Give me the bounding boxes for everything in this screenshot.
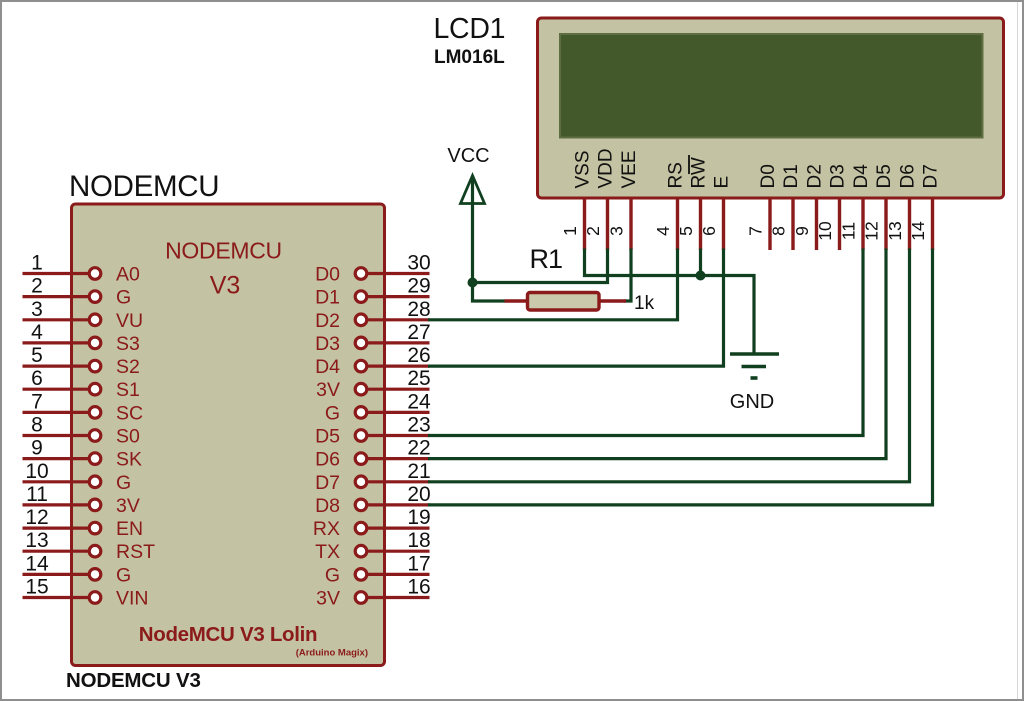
svg-text:8: 8 bbox=[769, 226, 789, 236]
svg-text:21: 21 bbox=[407, 460, 430, 483]
NodeMCU pin 4 (S3) left bbox=[23, 321, 140, 355]
NodeMCU pin 13 (RST) left bbox=[23, 529, 156, 563]
svg-text:25: 25 bbox=[407, 367, 430, 390]
svg-text:14: 14 bbox=[25, 552, 49, 575]
NodeMCU pin 14 (G) left bbox=[23, 552, 132, 586]
NodeMCU module body bbox=[72, 204, 385, 666]
svg-text:S0: S0 bbox=[116, 426, 140, 448]
svg-text:VCC: VCC bbox=[447, 145, 489, 167]
wire VEE (LCD pin3) down to R1 right lead bbox=[624, 249, 631, 302]
svg-text:GND: GND bbox=[730, 391, 774, 413]
svg-text:TX: TX bbox=[315, 541, 340, 563]
NodeMCU pin 20 (D8) right bbox=[315, 483, 431, 517]
svg-text:13: 13 bbox=[885, 221, 905, 240]
resistor R1 1k bbox=[505, 244, 655, 314]
svg-text:D8: D8 bbox=[315, 495, 340, 517]
svg-text:6: 6 bbox=[699, 226, 719, 236]
NodeMCU pin 1 (A0) left bbox=[23, 252, 141, 286]
LCD1 pin 4 (RS) bbox=[653, 162, 687, 250]
wire D5 (LCD pin12) to NodeMCU pin 22 (D6) bbox=[428, 249, 886, 459]
svg-text:7: 7 bbox=[31, 390, 43, 413]
svg-text:3V: 3V bbox=[316, 588, 340, 610]
svg-text:14: 14 bbox=[908, 221, 928, 241]
NodeMCU pin 17 (G) right bbox=[325, 552, 431, 586]
svg-text:23: 23 bbox=[407, 414, 430, 437]
svg-text:3: 3 bbox=[31, 298, 43, 321]
svg-text:1: 1 bbox=[560, 226, 580, 236]
NodeMCU pin 22 (D6) right bbox=[315, 437, 431, 471]
LCD1 pin 12 (D5) bbox=[862, 164, 896, 250]
LCD1 pin 9 (D2) bbox=[792, 164, 826, 250]
svg-text:SC: SC bbox=[116, 402, 143, 424]
svg-text:RX: RX bbox=[313, 518, 340, 540]
NodeMCU pin 11 (3V) left bbox=[23, 483, 140, 517]
junction GND rail / RW bbox=[696, 271, 706, 281]
svg-text:D4: D4 bbox=[315, 356, 340, 378]
NodeMCU pin 16 (3V) right bbox=[316, 576, 431, 610]
svg-text:12: 12 bbox=[25, 506, 48, 529]
wire D4 (LCD pin11) to NodeMCU pin 23 (D5) bbox=[428, 249, 863, 436]
svg-text:16: 16 bbox=[407, 576, 430, 599]
NodeMCU pin 2 (G) left bbox=[23, 275, 132, 309]
svg-text:NodeMCU V3 Lolin: NodeMCU V3 Lolin bbox=[139, 623, 318, 646]
NodeMCU pin 5 (S2) left bbox=[23, 344, 140, 378]
svg-text:VDD: VDD bbox=[596, 148, 617, 188]
NodeMCU pin 15 (VIN) left bbox=[23, 576, 149, 610]
svg-text:VEE: VEE bbox=[619, 150, 640, 188]
svg-text:G: G bbox=[325, 402, 340, 424]
svg-text:17: 17 bbox=[407, 552, 430, 575]
svg-text:4: 4 bbox=[31, 321, 43, 344]
LCD1 pin 6 (E) bbox=[699, 176, 733, 250]
NodeMCU pin 23 (D5) right bbox=[315, 414, 431, 448]
wire RS (LCD pin4) to NodeMCU pin 28 (D2) bbox=[428, 249, 678, 320]
svg-text:24: 24 bbox=[407, 390, 431, 413]
svg-text:VU: VU bbox=[116, 310, 143, 332]
NodeMCU pin 27 (D3) right bbox=[315, 321, 431, 355]
svg-text:29: 29 bbox=[407, 275, 430, 298]
LCD1 pin 8 (D1) bbox=[769, 164, 803, 250]
svg-text:18: 18 bbox=[407, 529, 430, 552]
svg-text:15: 15 bbox=[25, 576, 48, 599]
wire VDD (LCD pin2) to VCC bbox=[473, 249, 608, 283]
NodeMCU pin 21 (D7) right bbox=[315, 460, 431, 494]
svg-text:D3: D3 bbox=[315, 333, 340, 355]
svg-text:9: 9 bbox=[31, 437, 43, 460]
svg-text:G: G bbox=[325, 564, 340, 586]
LCD1 pin 1 (VSS) bbox=[560, 150, 594, 250]
svg-text:26: 26 bbox=[407, 344, 430, 367]
wire E (LCD pin6) to NodeMCU pin 26 (D4) bbox=[428, 249, 724, 367]
wire RW (LCD pin5) to GND rail bbox=[699, 249, 702, 276]
svg-text:10: 10 bbox=[25, 460, 48, 483]
svg-text:D6: D6 bbox=[315, 449, 340, 471]
svg-text:D1: D1 bbox=[781, 164, 802, 188]
svg-text:3V: 3V bbox=[316, 379, 340, 401]
NodeMCU pin 7 (SC) left bbox=[23, 390, 144, 424]
svg-text:D3: D3 bbox=[828, 164, 849, 188]
svg-text:R1: R1 bbox=[530, 244, 563, 274]
NodeMCU pin 6 (S1) left bbox=[23, 367, 140, 401]
svg-text:D5: D5 bbox=[874, 164, 895, 188]
wire VCC junction down to R1 left lead bbox=[473, 283, 505, 302]
svg-text:D1: D1 bbox=[315, 287, 340, 309]
NodeMCU pin 28 (D2) right bbox=[315, 298, 431, 332]
LCD1 pin 11 (D4) bbox=[839, 164, 873, 250]
LCD1 pin 5 (RW) bbox=[676, 155, 710, 250]
LCD1 pin 10 (D3) bbox=[815, 164, 849, 250]
svg-text:S1: S1 bbox=[116, 379, 140, 401]
svg-text:S3: S3 bbox=[116, 333, 140, 355]
NodeMCU pin 10 (G) left bbox=[23, 460, 132, 494]
svg-text:6: 6 bbox=[31, 367, 43, 390]
svg-text:13: 13 bbox=[25, 529, 48, 552]
svg-text:EN: EN bbox=[116, 518, 143, 540]
svg-text:11: 11 bbox=[839, 222, 859, 240]
svg-text:19: 19 bbox=[407, 506, 430, 529]
NodeMCU pin 12 (EN) left bbox=[23, 506, 144, 540]
ground symbol GND bbox=[730, 354, 779, 413]
svg-text:D2: D2 bbox=[805, 164, 826, 188]
svg-text:S2: S2 bbox=[116, 356, 140, 378]
svg-text:(Arduino Magix): (Arduino Magix) bbox=[296, 648, 368, 659]
svg-text:10: 10 bbox=[815, 221, 835, 241]
svg-text:20: 20 bbox=[407, 483, 430, 506]
svg-text:NODEMCU: NODEMCU bbox=[69, 170, 219, 203]
svg-text:D4: D4 bbox=[851, 164, 872, 189]
svg-text:G: G bbox=[116, 564, 131, 586]
LCD1 pin 2 (VDD) bbox=[583, 148, 617, 250]
svg-text:1: 1 bbox=[31, 252, 43, 275]
NodeMCU pin 18 (TX) right bbox=[315, 529, 431, 563]
LCD1 screen bbox=[560, 34, 983, 138]
svg-text:9: 9 bbox=[792, 226, 812, 236]
svg-text:RW: RW bbox=[689, 157, 710, 188]
NodeMCU pin 3 (VU) left bbox=[23, 298, 144, 332]
LCD1 pin 7 (D0) bbox=[746, 164, 780, 250]
svg-text:G: G bbox=[116, 287, 131, 309]
svg-text:LM016L: LM016L bbox=[434, 47, 505, 68]
svg-text:27: 27 bbox=[407, 321, 430, 344]
svg-text:30: 30 bbox=[407, 252, 430, 275]
svg-text:1k: 1k bbox=[634, 293, 655, 314]
svg-text:D0: D0 bbox=[315, 264, 340, 286]
svg-text:2: 2 bbox=[583, 226, 603, 236]
LCD1 LM016L body bbox=[538, 18, 1004, 198]
svg-text:22: 22 bbox=[407, 437, 430, 460]
power symbol VCC bbox=[447, 145, 489, 283]
NodeMCU pin 9 (SK) left bbox=[23, 437, 143, 471]
svg-text:E: E bbox=[712, 176, 733, 189]
svg-text:A0: A0 bbox=[116, 264, 140, 286]
svg-text:VSS: VSS bbox=[573, 150, 594, 188]
NodeMCU pin 29 (D1) right bbox=[315, 275, 431, 309]
svg-text:5: 5 bbox=[31, 344, 43, 367]
svg-text:D2: D2 bbox=[315, 310, 340, 332]
NodeMCU pin 30 (D0) right bbox=[315, 252, 431, 286]
svg-text:RST: RST bbox=[116, 541, 155, 563]
svg-text:7: 7 bbox=[746, 226, 766, 236]
svg-text:12: 12 bbox=[862, 221, 882, 240]
svg-text:D7: D7 bbox=[315, 472, 340, 494]
svg-text:V3: V3 bbox=[210, 272, 241, 300]
svg-text:28: 28 bbox=[407, 298, 430, 321]
svg-text:2: 2 bbox=[31, 275, 43, 298]
NodeMCU pin 26 (D4) right bbox=[315, 344, 431, 378]
NodeMCU pin 8 (S0) left bbox=[23, 414, 141, 448]
svg-text:8: 8 bbox=[31, 414, 43, 437]
LCD1 pin 13 (D6) bbox=[885, 164, 919, 250]
wire D7 (LCD pin14) to NodeMCU pin 20 (D8) bbox=[428, 249, 933, 505]
svg-text:SK: SK bbox=[116, 449, 142, 471]
svg-text:11: 11 bbox=[26, 483, 48, 506]
junction VCC node bbox=[468, 278, 478, 288]
NodeMCU pin 25 (3V) right bbox=[316, 367, 431, 401]
svg-text:NODEMCU V3: NODEMCU V3 bbox=[66, 669, 201, 692]
wire VSS (LCD pin1) to GND rail bbox=[585, 249, 755, 354]
NodeMCU pin 19 (RX) right bbox=[313, 506, 431, 540]
wire D6 (LCD pin13) to NodeMCU pin 21 (D7) bbox=[428, 249, 910, 482]
svg-text:VIN: VIN bbox=[116, 588, 149, 610]
svg-text:D0: D0 bbox=[758, 164, 779, 188]
svg-text:D7: D7 bbox=[921, 164, 942, 188]
svg-text:LCD1: LCD1 bbox=[434, 13, 506, 45]
svg-text:D5: D5 bbox=[315, 426, 340, 448]
LCD1 pin 14 (D7) bbox=[908, 164, 942, 250]
svg-text:NODEMCU: NODEMCU bbox=[165, 238, 282, 264]
svg-text:G: G bbox=[116, 472, 131, 494]
svg-text:RS: RS bbox=[666, 162, 687, 188]
LCD1 pin 3 (VEE) bbox=[607, 150, 641, 250]
NodeMCU pin 24 (G) right bbox=[325, 390, 431, 424]
svg-text:D6: D6 bbox=[898, 164, 919, 188]
svg-text:3: 3 bbox=[607, 226, 627, 236]
svg-text:4: 4 bbox=[653, 226, 673, 236]
svg-text:3V: 3V bbox=[116, 495, 140, 517]
svg-text:5: 5 bbox=[676, 226, 696, 236]
